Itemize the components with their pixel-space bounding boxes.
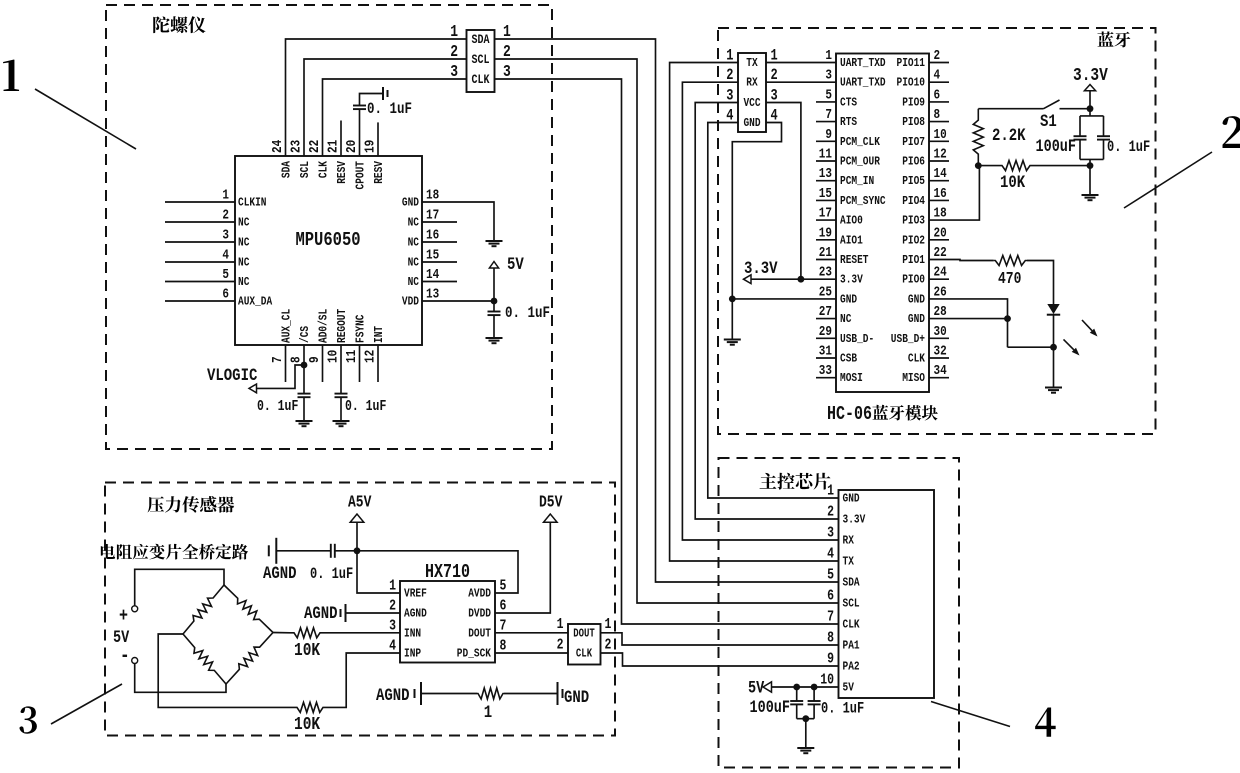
bus wire J2 GND to main chip GND	[708, 123, 839, 499]
MPU6050 left pin 4 wire	[165, 261, 235, 263]
svg-text:D5V: D5V	[539, 494, 562, 512]
svg-text:PIO1: PIO1	[902, 254, 925, 267]
svg-text:0. 1uF: 0. 1uF	[310, 567, 353, 584]
ground below pin8 capacitor	[296, 421, 313, 426]
HC-06 PIO3 pin18 wire to R1/R2 node	[929, 166, 979, 221]
MPU6050 right pin 13 wire	[422, 300, 494, 302]
switch S1 left wire to 2.2K	[978, 108, 1043, 110]
svg-text:PIO9: PIO9	[902, 96, 925, 109]
HC-06 left pin 7 stub	[816, 121, 836, 123]
svg-text:A5V: A5V	[348, 494, 371, 512]
MPU6050 right pin 15 wire	[422, 261, 457, 263]
capacitor pair bottom rail	[1080, 158, 1104, 160]
MPU6050 left pin 5 wire	[165, 281, 235, 283]
HC-06 left pin 19 stub	[816, 239, 836, 241]
svg-text:AGND: AGND	[263, 564, 297, 584]
5V power arrow for VDD	[489, 262, 498, 269]
svg-text:TX: TX	[843, 556, 855, 569]
HC-06 left pin 15 stub	[816, 199, 836, 201]
node on pin8 wire	[301, 362, 308, 369]
J3 DOUT wire to main chip PA1	[601, 633, 839, 645]
svg-text:2: 2	[389, 597, 396, 614]
svg-text:34: 34	[934, 362, 948, 379]
node on 3.3V pin23 wire	[798, 276, 805, 283]
svg-text:/CS: /CS	[299, 326, 312, 343]
svg-text:5V: 5V	[843, 682, 855, 695]
ground for MPU6050 GND pin18	[486, 241, 503, 246]
bridge strain gauge R_c bottom-left arm	[183, 634, 226, 684]
GND pin25 ground stem	[731, 299, 733, 340]
svg-text:20: 20	[934, 224, 947, 241]
node for C5	[811, 684, 818, 691]
svg-text:26: 26	[934, 283, 947, 300]
svg-text:2: 2	[450, 44, 458, 62]
svg-text:11: 11	[343, 349, 360, 363]
svg-text:PIO2: PIO2	[902, 234, 925, 247]
HC-06 GND pin26 wire	[929, 299, 1008, 347]
svg-text:2: 2	[605, 636, 612, 653]
HC-06 GND pin25 wire	[732, 298, 836, 300]
svg-text:DVDD: DVDD	[468, 608, 491, 621]
HC-06 right pin 14 stub	[929, 180, 949, 182]
node for C4	[793, 684, 800, 691]
AGND ladder wire	[421, 693, 477, 695]
svg-text:9: 9	[825, 126, 832, 143]
svg-text:1: 1	[389, 577, 396, 594]
svg-text:23: 23	[287, 140, 304, 153]
svg-text:3: 3	[389, 617, 396, 634]
connector J2 TX/RX/VCC/GND body	[738, 53, 766, 132]
svg-text:RTS: RTS	[840, 116, 857, 129]
svg-text:VREF: VREF	[404, 588, 427, 601]
LED D1 to node wire	[1053, 315, 1055, 348]
svg-text:24: 24	[934, 263, 948, 280]
leader line for label 1	[35, 89, 136, 149]
svg-text:NC: NC	[238, 276, 250, 289]
svg-text:7: 7	[269, 356, 286, 363]
HC-06 right pin 24 stub	[929, 278, 949, 280]
svg-text:CLKIN: CLKIN	[238, 197, 267, 210]
svg-text:GND: GND	[908, 313, 925, 326]
node below capacitor pair	[1087, 162, 1094, 169]
svg-text:3.3V: 3.3V	[744, 259, 778, 279]
svg-text:CSB: CSB	[840, 353, 857, 366]
svg-text:29: 29	[819, 323, 832, 340]
bridge strain gauge R_d bottom-right arm	[226, 633, 273, 685]
node on GND pin28 wire	[1004, 315, 1011, 322]
bus wire J2 TX to main chip TX	[670, 63, 839, 562]
svg-text:1: 1	[222, 186, 229, 203]
3.3V arrow to switch node wire	[1089, 91, 1091, 109]
svg-text:10: 10	[324, 350, 341, 363]
svg-text:AIO1: AIO1	[840, 234, 863, 247]
capacitor pair top rail	[1080, 115, 1104, 117]
svg-text:CLK: CLK	[908, 353, 925, 366]
svg-text:GND: GND	[743, 117, 760, 130]
svg-text:AD0/SL: AD0/SL	[318, 309, 331, 343]
svg-text:8: 8	[287, 356, 304, 363]
svg-text:CLK: CLK	[843, 619, 860, 632]
R4 wire to INN	[324, 632, 400, 634]
node below R1	[975, 162, 982, 169]
svg-text:PIO6: PIO6	[902, 156, 925, 169]
svg-text:0. 1uF: 0. 1uF	[505, 305, 550, 323]
label digit 3 bottom-left	[19, 706, 37, 733]
HC-06 right pin 30 stub	[929, 337, 949, 339]
C3 to node wire	[335, 550, 357, 552]
svg-text:1: 1	[827, 482, 834, 499]
node wire down to VREF	[357, 551, 400, 593]
svg-text:PD_SCK: PD_SCK	[457, 648, 492, 661]
svg-text:USB_D+: USB_D+	[891, 333, 925, 346]
bridge strain gauge R_b top-right arm	[224, 585, 273, 633]
HC-06 right pin 12 stub	[929, 160, 949, 162]
svg-text:5V: 5V	[507, 255, 524, 275]
svg-text:5: 5	[825, 86, 832, 103]
svg-text:19: 19	[361, 140, 378, 153]
svg-text:2: 2	[557, 636, 564, 653]
AGND ladder symbol	[415, 682, 422, 705]
bus wire J1 SDA to main chip SDA	[495, 39, 839, 582]
svg-text:10K: 10K	[294, 713, 320, 734]
svg-text:4: 4	[934, 66, 941, 83]
HC-06 GND pin28 wire	[929, 318, 1008, 320]
svg-text:PA2: PA2	[843, 661, 860, 674]
ground below VDD capacitor	[486, 338, 503, 343]
svg-text:TX: TX	[746, 57, 758, 70]
AGND wire to pin2	[346, 612, 401, 614]
HX710 DOUT pin7 wire to J3	[495, 632, 568, 634]
leader line for label 3	[51, 684, 122, 724]
svg-text:7: 7	[500, 617, 507, 634]
capacitor C_regout 0.1uF plates	[335, 394, 348, 398]
VLOGIC arrow	[249, 384, 257, 393]
svg-text:5V: 5V	[748, 678, 765, 698]
ground below main chip caps	[797, 748, 814, 753]
HC-06 right pin 10 stub	[929, 140, 949, 142]
MPU6050 RESV pin19 stub	[377, 122, 379, 156]
svg-text:13: 13	[819, 165, 832, 182]
svg-text:0. 1uF: 0. 1uF	[257, 398, 298, 415]
HC-06 left pin 5 stub	[816, 101, 836, 103]
svg-text:UART_TXD: UART_TXD	[840, 57, 886, 70]
HX710 PD_SCK pin8 wire to J3	[495, 652, 568, 654]
bus wire J1 CLK to main chip CLK	[495, 79, 839, 624]
VLOGIC branch wire	[257, 365, 305, 388]
label digit 4 bottom-right	[1035, 708, 1056, 737]
svg-text:10K: 10K	[294, 639, 320, 660]
svg-text:RESV: RESV	[336, 161, 349, 184]
svg-text:RESET: RESET	[840, 254, 869, 267]
svg-text:SDA: SDA	[281, 161, 294, 178]
svg-text:2: 2	[934, 47, 941, 64]
MPU6050 right pin 14 wire	[422, 281, 457, 283]
svg-text:MPU6050: MPU6050	[295, 229, 360, 251]
resistor R3 470 horizontal	[994, 256, 1027, 266]
svg-text:NC: NC	[408, 276, 420, 289]
svg-text:21: 21	[819, 244, 833, 261]
HC-06 left pin 11 stub	[816, 160, 836, 162]
svg-text:2: 2	[827, 503, 834, 520]
svg-text:4: 4	[222, 246, 229, 263]
node at A5V junction	[354, 547, 361, 554]
MPU6050 right pin 18 wire	[422, 202, 494, 240]
svg-text:3: 3	[825, 66, 832, 83]
HC-06 right pin 4 stub	[929, 81, 949, 83]
node at switch and caps	[1087, 105, 1094, 112]
J2 GND wire down to GND node	[732, 123, 781, 299]
MPU6050 right pin 17 wire	[422, 221, 457, 223]
svg-text:3: 3	[222, 226, 229, 243]
svg-text:AGND: AGND	[376, 686, 410, 706]
block title 压力传感器	[148, 496, 164, 512]
svg-text:6: 6	[222, 285, 229, 302]
svg-text:NC: NC	[408, 237, 420, 250]
gyroscope block dashed border	[106, 5, 552, 449]
svg-text:NC: NC	[408, 257, 420, 270]
svg-text:CPOUT: CPOUT	[355, 161, 368, 190]
svg-text:19: 19	[819, 224, 832, 241]
svg-text:100uF: 100uF	[750, 698, 790, 718]
MPU6050 SCL pin23 wire to connector	[304, 59, 467, 156]
svg-text:10: 10	[820, 671, 834, 688]
svg-text:100uF: 100uF	[1036, 137, 1076, 157]
resistor R4 10K to INN	[290, 628, 324, 638]
svg-text:25: 25	[819, 283, 832, 300]
svg-text:3.3V: 3.3V	[840, 274, 863, 287]
MPU6050 SDA pin24 wire to connector	[286, 39, 467, 156]
svg-text:DOUT: DOUT	[573, 627, 595, 640]
svg-text:MISO: MISO	[902, 372, 925, 385]
svg-text:AUX_DA: AUX_DA	[238, 296, 273, 309]
svg-text:GND: GND	[564, 688, 589, 708]
svg-text:PIO11: PIO11	[896, 57, 925, 70]
MPU6050 left pin 1 wire	[165, 201, 235, 203]
HC-06 left pin 13 stub	[816, 180, 836, 182]
LED light arrow 1	[1082, 320, 1098, 337]
svg-text:20: 20	[343, 140, 360, 153]
svg-text:470: 470	[998, 271, 1021, 289]
svg-text:AUX_CL: AUX_CL	[281, 309, 294, 343]
switch S1 fixed side wire	[1060, 108, 1091, 110]
HC-06 right pin 34 stub	[929, 377, 949, 379]
svg-text:NC: NC	[408, 217, 420, 230]
svg-text:17: 17	[819, 204, 832, 221]
svg-text:AIO0: AIO0	[840, 215, 863, 228]
svg-text:11: 11	[819, 145, 833, 162]
svg-text:PCM_OUR: PCM_OUR	[840, 156, 880, 169]
svg-text:16: 16	[934, 185, 947, 202]
svg-text:5: 5	[827, 566, 834, 583]
3.3V power arrow bluetooth	[1084, 85, 1095, 91]
svg-text:30: 30	[934, 323, 947, 340]
HC-06 pin1 wire to J2 TX	[766, 62, 836, 64]
IC U2 HC-06 body	[836, 54, 929, 393]
svg-text:MOSI: MOSI	[840, 372, 863, 385]
svg-text:UART_TXD: UART_TXD	[840, 77, 886, 90]
svg-text:PIO8: PIO8	[902, 116, 925, 129]
node below LED	[1050, 344, 1057, 351]
HC-06 3.3V pin23 wire	[745, 278, 836, 280]
LED D1 triangle	[1047, 304, 1059, 314]
svg-text:GND: GND	[402, 197, 419, 210]
svg-text:PA1: PA1	[843, 640, 860, 653]
svg-text:13: 13	[426, 285, 439, 302]
resistor R2 10K horizontal	[978, 161, 1090, 171]
IC U3 HX710 body	[400, 581, 495, 663]
ground stem below cap node	[1089, 166, 1091, 195]
resistor R6 value-1 body	[477, 688, 504, 699]
capacitor C1 100uF left rail and plates	[1079, 116, 1081, 136]
connector J1 SDA/SCL/CLK body	[467, 30, 495, 92]
svg-text:REGOUT: REGOUT	[336, 308, 349, 343]
capacitor bottom join wire	[797, 718, 814, 720]
HC-06 right pin 32 stub	[929, 357, 949, 359]
capacitor C_vdd 0.1uF plates	[493, 301, 495, 312]
AGND symbol at CPOUT cap	[383, 87, 388, 100]
svg-text:GND: GND	[840, 293, 857, 306]
HC-06 right pin 6 stub	[929, 101, 949, 103]
svg-text:-: -	[120, 644, 130, 667]
CPOUT cap to AGND wire	[360, 94, 383, 106]
GND pins to LED node wire	[1008, 346, 1054, 348]
A5V wire down to node	[356, 522, 358, 551]
svg-text:AVDD: AVDD	[468, 588, 491, 601]
R3 to LED wire	[1027, 261, 1054, 305]
capacitor C3 0.1uF plates	[331, 544, 335, 558]
svg-text:CLK: CLK	[576, 648, 593, 661]
J3 CLK wire to main chip PA2	[601, 653, 839, 666]
MPU6050 CPOUT pin20 wire	[359, 109, 361, 156]
HC-06 left pin 27 stub	[816, 318, 836, 320]
LED ground stem	[1053, 347, 1055, 387]
HC-06 left pin 29 stub	[816, 337, 836, 339]
3.3V arrow left	[744, 275, 752, 284]
pressure sensor block dashed border	[105, 483, 615, 736]
svg-text:0. 1uF: 0. 1uF	[345, 398, 386, 415]
MPU6050 INT pin12 stub	[377, 345, 379, 382]
svg-text:1: 1	[825, 47, 832, 64]
svg-text:1: 1	[605, 616, 612, 633]
capacitor C_cs 0.1uF plates	[298, 394, 311, 398]
GND ladder symbol	[558, 682, 563, 705]
svg-text:INN: INN	[404, 627, 421, 640]
bridge strain gauge R_a top-left arm	[183, 585, 224, 634]
svg-text:1: 1	[484, 703, 492, 723]
svg-text:18: 18	[934, 204, 947, 221]
svg-text:0. 1uF: 0. 1uF	[1107, 140, 1150, 157]
svg-text:12: 12	[361, 350, 378, 363]
LED D1 cathode bar	[1047, 314, 1060, 316]
block title 蓝牙	[1098, 31, 1114, 46]
svg-text:24: 24	[269, 139, 286, 153]
node on GND pin25 wire	[729, 296, 736, 303]
bus wire J2 VCC to main chip 3.3V	[695, 103, 838, 520]
svg-text:8: 8	[827, 629, 834, 646]
svg-text:6: 6	[827, 587, 834, 604]
svg-text:PIO10: PIO10	[896, 77, 925, 90]
bridge - wire to bottom vertex	[135, 664, 226, 693]
svg-text:15: 15	[426, 246, 439, 263]
svg-text:SCL: SCL	[299, 161, 312, 178]
HC-06 left pin 9 stub	[816, 140, 836, 142]
capacitor C4 100uF	[796, 687, 798, 701]
svg-text:33: 33	[819, 362, 832, 379]
svg-text:CLK: CLK	[318, 161, 331, 178]
bus wire J2 RX to main chip RX	[682, 82, 838, 540]
node on VDD pin13	[491, 298, 498, 305]
A5V power arrow	[350, 514, 364, 522]
svg-text:3: 3	[450, 64, 458, 82]
svg-text:AGND: AGND	[404, 608, 427, 621]
svg-text:21: 21	[324, 139, 341, 153]
main chip 5V pin10 wire	[772, 686, 839, 688]
block title 主控芯片	[760, 473, 777, 489]
svg-text:0. 1uF: 0. 1uF	[821, 701, 864, 718]
MPU6050 CLK pin22 wire to connector	[323, 79, 467, 156]
MPU6050 RESV pin21 stub	[340, 121, 342, 157]
svg-text:FSYNC: FSYNC	[355, 314, 368, 343]
svg-text:5: 5	[500, 577, 507, 594]
svg-text:9: 9	[306, 356, 323, 363]
svg-text:CLK: CLK	[472, 73, 490, 87]
capacitor C_cpout 0.1uF plates	[353, 106, 366, 110]
block title 陀螺仪	[153, 16, 170, 33]
MPU6050 left pin 6 wire	[165, 300, 235, 302]
svg-text:9: 9	[827, 650, 834, 667]
ground below LED	[1045, 388, 1062, 393]
svg-text:3: 3	[827, 524, 834, 541]
svg-text:32: 32	[934, 342, 947, 359]
resistor R1 2.2K vertical	[973, 109, 983, 166]
svg-text:3.3V: 3.3V	[1073, 64, 1108, 85]
svg-text:12: 12	[934, 145, 947, 162]
svg-text:SCL: SCL	[472, 53, 490, 67]
svg-text:8: 8	[500, 637, 507, 654]
svg-text:1: 1	[557, 616, 564, 633]
HC-06 PIO1 pin22 wire to R3	[929, 260, 994, 261]
HC-06 left pin 17 stub	[816, 219, 836, 221]
node below C4 C5	[802, 715, 809, 722]
svg-text:10K: 10K	[1000, 173, 1025, 193]
MPU6050 REGOUT pin10 wire	[340, 345, 342, 394]
MPU6050 right pin 16 wire	[422, 241, 457, 243]
MPU6050 left pin 3 wire	[165, 241, 235, 243]
svg-text:15: 15	[819, 185, 832, 202]
label digit 2 top-right	[1223, 116, 1240, 148]
bridge supply - terminal	[132, 658, 138, 664]
IC U4 main controller body	[839, 490, 935, 698]
svg-text:SDA: SDA	[843, 577, 860, 590]
svg-text:6: 6	[500, 597, 507, 614]
HC-06 name label 蓝牙模块	[872, 405, 888, 420]
svg-text:CTS: CTS	[840, 96, 857, 109]
svg-text:HX710: HX710	[425, 563, 470, 584]
svg-text:PCM_SYNC: PCM_SYNC	[840, 195, 886, 208]
svg-text:28: 28	[934, 303, 947, 320]
bottom rail to ground node	[1089, 159, 1091, 165]
svg-text:10: 10	[934, 126, 947, 143]
leader line for label 2	[1124, 152, 1212, 208]
svg-text:INP: INP	[404, 648, 421, 661]
HC-06 pin3 wire to J2 RX	[766, 81, 836, 83]
label 电阻应变片全桥定路	[101, 544, 115, 559]
HC-06 left pin 21 stub	[816, 259, 836, 261]
ground below REGOUT capacitor	[333, 421, 350, 426]
HC-06 right pin 2 stub	[929, 62, 949, 64]
svg-text:VLOGIC: VLOGIC	[207, 366, 258, 386]
svg-text:DOUT: DOUT	[468, 627, 491, 640]
